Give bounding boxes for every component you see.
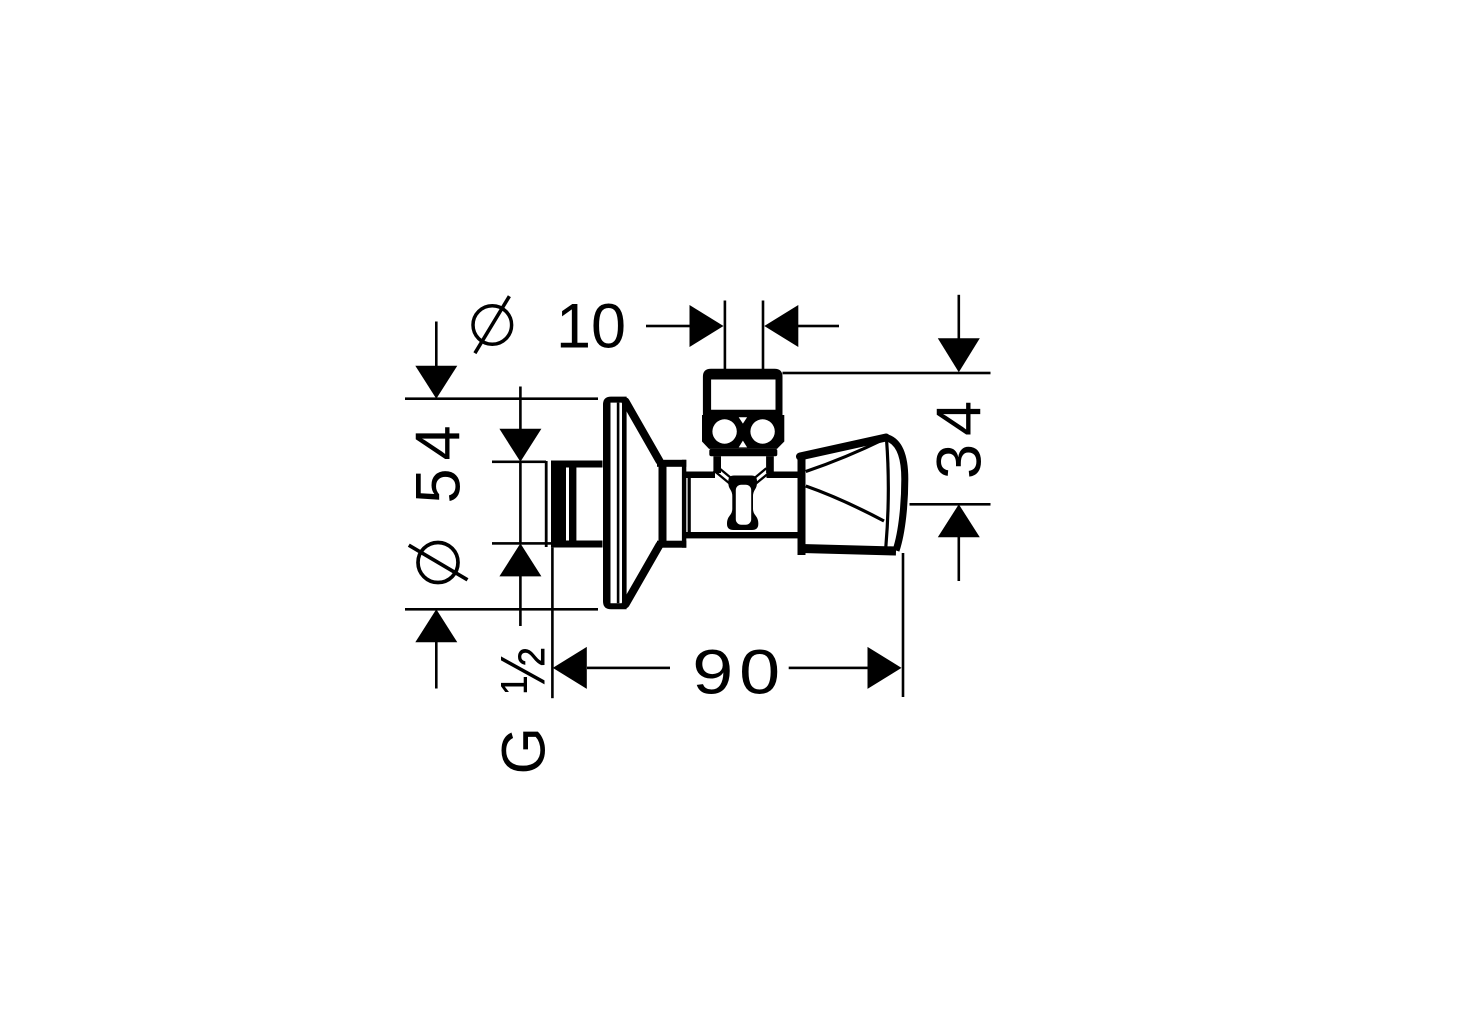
threaded pipe G1/2 inlet — [545, 461, 603, 548]
handle knob — [800, 438, 905, 556]
dim extension line cap top right — [783, 372, 991, 375]
arrow 54 top — [415, 366, 457, 399]
arrow G1/2 top — [499, 429, 541, 462]
outlet compression nut — [702, 415, 784, 456]
outlet neck — [713, 456, 773, 473]
diameter symbol top — [473, 296, 512, 353]
valve body tube — [684, 472, 799, 539]
arrow G1/2 bottom — [499, 543, 541, 576]
svg-text:34: 34 — [925, 393, 995, 479]
dimension G1/2 line bottom — [519, 575, 522, 626]
dimension 34 line top — [958, 295, 961, 340]
dim extension line outlet right — [762, 301, 765, 370]
dimension 54 line top — [435, 322, 438, 368]
dimension 54 line bottom — [435, 641, 438, 689]
dimension 34 line bottom — [958, 536, 961, 581]
dimension 10 line left — [646, 325, 691, 328]
valve spindle — [727, 476, 758, 531]
dim extension line 90 right — [902, 553, 905, 697]
dim extension line flange bottom — [405, 608, 598, 611]
arrow 90 left — [553, 647, 587, 689]
wall flange plate — [603, 397, 627, 610]
svg-text:54: 54 — [404, 417, 474, 503]
dimension G1/2 middle segment — [519, 462, 522, 544]
dim extension line outlet left — [724, 301, 727, 370]
dim tick pipe top — [492, 461, 546, 464]
diameter symbol left (rotated) — [409, 543, 468, 583]
arrow 34 top — [938, 338, 980, 372]
dimension 90 line left — [587, 667, 670, 670]
arrow 10 right — [764, 305, 798, 347]
dimension 10 line right — [797, 325, 839, 328]
cone tip cylinder — [657, 460, 686, 548]
flange cone top slant — [626, 402, 660, 462]
dim extension line centerline right — [910, 503, 991, 506]
top outlet cap — [703, 369, 783, 418]
arrow 54 bottom — [415, 609, 457, 642]
svg-text:10: 10 — [556, 292, 626, 362]
dimension G1/2 line top — [519, 387, 522, 431]
dim extension line 90 left — [551, 548, 554, 699]
dim extension line flange top — [405, 397, 598, 400]
outlet taper stubs — [714, 468, 772, 483]
dim tick pipe bottom — [492, 542, 551, 545]
arrow 90 right — [868, 647, 902, 689]
arrow 34 bottom — [938, 504, 980, 537]
svg-text:½: ½ — [487, 647, 558, 694]
flange cone bottom slant — [626, 545, 660, 604]
arrow 10 left — [690, 305, 724, 347]
dimension 90 line right — [789, 667, 870, 670]
svg-text:G: G — [490, 727, 558, 774]
svg-text:90: 90 — [692, 637, 786, 708]
